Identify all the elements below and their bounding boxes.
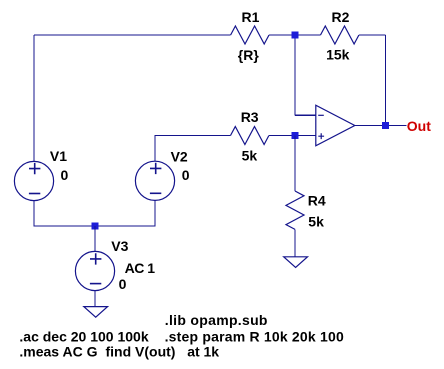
- svg-text:0: 0: [119, 276, 127, 292]
- op-amp U1 triangle: [316, 105, 355, 146]
- wire node N1 to R2: [295, 34, 321, 36]
- wire V3 bottom to ground: [94, 290, 96, 306]
- op-amp plus sign: [318, 133, 324, 139]
- wire R4 to ground: [294, 229, 296, 256]
- resistor R2: [321, 26, 359, 44]
- svg-text:V3: V3: [111, 238, 128, 254]
- svg-text:R2: R2: [332, 9, 350, 25]
- wire R3 node to plus pin: [295, 135, 316, 137]
- V2 plus sign: [150, 163, 161, 174]
- svg-text:find V(out): find V(out): [106, 343, 176, 359]
- voltage source V2 circle: [135, 161, 174, 200]
- wire down to output node: [385, 35, 387, 126]
- svg-text:Out: Out: [407, 118, 431, 134]
- wire R1 to node N1: [269, 34, 295, 36]
- svg-text:V1: V1: [50, 148, 67, 164]
- svg-text:R1: R1: [242, 9, 260, 25]
- ground (R4): [284, 257, 308, 268]
- V3 minus sign: [90, 283, 101, 285]
- node N2 junction: [292, 132, 299, 139]
- wire top rail V1 to R1: [34, 34, 231, 36]
- output node junction: [382, 122, 389, 129]
- wire node N3 down to V3: [94, 226, 96, 252]
- wire to op-amp minus pin: [295, 114, 316, 116]
- svg-text:0: 0: [182, 167, 190, 183]
- svg-text:{R}: {R}: [238, 47, 260, 63]
- resistor R4: [286, 191, 304, 229]
- svg-text:.step param R 10k 20k 100: .step param R 10k 20k 100: [165, 328, 344, 344]
- resistor R3: [231, 127, 269, 145]
- svg-text:R3: R3: [241, 109, 259, 125]
- wire node N1 down to inverting input: [294, 35, 296, 115]
- V1 minus sign: [29, 193, 40, 195]
- svg-text:R4: R4: [308, 193, 326, 209]
- resistor R1: [231, 26, 269, 44]
- wire R2 right to corner: [359, 34, 386, 36]
- svg-text:5k: 5k: [308, 214, 324, 230]
- ground (V3): [84, 307, 108, 318]
- svg-text:.ac dec 20 100 100k: .ac dec 20 100 100k: [19, 328, 148, 344]
- wire V2 top to R3: [155, 136, 231, 162]
- V3 plus sign: [90, 253, 101, 264]
- wire op-amp output to node Out: [355, 125, 386, 127]
- svg-text:.meas AC G: .meas AC G: [19, 343, 97, 359]
- wire bottom rail to V2: [95, 200, 155, 226]
- op-amp minus sign: [318, 114, 324, 116]
- svg-text:at 1k: at 1k: [187, 343, 219, 359]
- voltage source V3 circle: [75, 251, 114, 290]
- wire V1 bottom to rail: [34, 201, 95, 226]
- svg-text:AC 1: AC 1: [125, 260, 156, 276]
- node N3 junction: [92, 223, 99, 230]
- svg-text:15k: 15k: [326, 46, 350, 62]
- V2 minus sign: [150, 192, 161, 194]
- wire V1 top: [33, 35, 35, 161]
- V1 plus sign: [29, 163, 40, 174]
- wire R3 to node N2: [269, 135, 295, 137]
- wire output node to label: [386, 125, 407, 127]
- svg-text:0: 0: [61, 167, 69, 183]
- node N1 junction: [292, 32, 299, 39]
- svg-text:5k: 5k: [242, 147, 258, 163]
- wire node N2 down to R4: [294, 136, 296, 192]
- svg-text:V2: V2: [171, 148, 188, 164]
- svg-text:.lib opamp.sub: .lib opamp.sub: [165, 312, 268, 328]
- voltage source V1 circle: [14, 161, 53, 200]
